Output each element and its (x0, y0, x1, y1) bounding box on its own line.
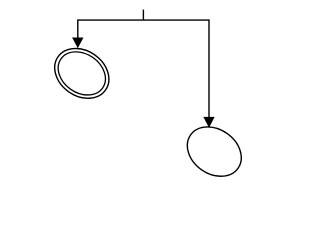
left ellipse outer (double outline) (45, 38, 118, 108)
left arrowhead (72, 38, 83, 49)
right ellipse (178, 117, 251, 187)
right arrowhead (203, 117, 214, 128)
left ellipse inner (50, 43, 114, 104)
top hanger tick (142, 10, 144, 21)
crossbar wire with left and right drops (78, 20, 209, 117)
